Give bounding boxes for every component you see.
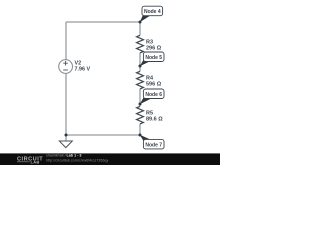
wire right bus segment Node4 to R3 <box>139 22 141 35</box>
wire left bus upper (V2 top lead) <box>65 22 67 60</box>
node E junction dot (ground) <box>65 134 68 137</box>
resistor R3 <box>137 35 144 53</box>
node B junction dot (Node 5) <box>139 65 142 68</box>
ground <box>59 141 72 148</box>
svg-text:Node 5: Node 5 <box>145 55 162 61</box>
wire right bus segment R4 to R5 (Node 6) <box>139 89 141 107</box>
node D junction dot (Node 7) <box>139 134 142 137</box>
wire bottom from ground junction to Node 7 <box>66 134 140 136</box>
svg-text:89.6 Ω: 89.6 Ω <box>146 117 163 123</box>
svg-text:296 Ω: 296 Ω <box>146 46 162 52</box>
wire ground stub <box>65 135 67 141</box>
node A junction dot (Node 4) <box>139 21 142 24</box>
wire top from V2 to Node 4 <box>66 21 140 23</box>
wire right bus segment R3 to R4 (Node 5) <box>139 53 141 72</box>
svg-text:R4: R4 <box>146 75 154 81</box>
svg-text:Node 7: Node 7 <box>145 142 162 148</box>
svg-text:shamikhail / Lab 1 - 3: shamikhail / Lab 1 - 3 <box>46 154 81 158</box>
wire right bus segment R5 to bottom (Node 7) <box>139 124 141 135</box>
svg-text:Node 6: Node 6 <box>145 92 162 98</box>
wire left bus lower (V2 bottom lead) <box>65 73 67 135</box>
svg-text:Node 4: Node 4 <box>144 9 161 15</box>
voltage source V2 body <box>59 60 73 74</box>
node Node 4 flag <box>140 6 163 22</box>
svg-text:LAB: LAB <box>31 160 40 165</box>
svg-text:R3: R3 <box>146 39 153 45</box>
svg-text:V2: V2 <box>75 60 82 66</box>
svg-text:7.96 V: 7.96 V <box>75 67 91 73</box>
node Node 5 flag <box>140 52 164 66</box>
svg-text:http://circuitlab.com/c/xw6t4r: http://circuitlab.com/c/xw6t4rcs7356qy <box>46 158 108 162</box>
node C junction dot (Node 6) <box>139 103 142 106</box>
node Node 7 flag <box>140 135 164 149</box>
svg-text:R5: R5 <box>146 110 153 116</box>
resistor R4 <box>137 71 144 89</box>
svg-text:596 Ω: 596 Ω <box>146 82 162 88</box>
watermark bar <box>0 153 220 165</box>
node Node 6 flag <box>140 89 164 104</box>
resistor R5 <box>137 106 144 124</box>
